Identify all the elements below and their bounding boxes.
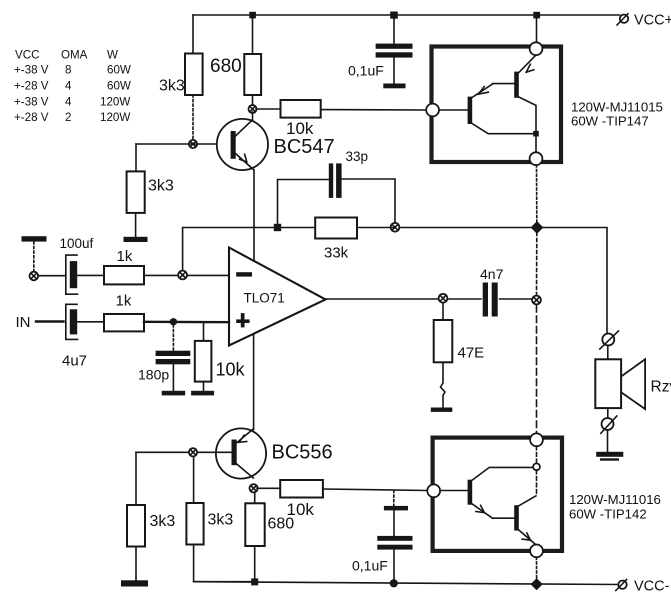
svg-text:4n7: 4n7 [480,266,504,282]
node inverting input junction [178,271,187,280]
resistor 3k3 (lower left) [127,505,145,547]
svg-text:120W-MJ11016: 120W-MJ11016 [569,492,661,507]
U2 terminal emitter (top) [530,42,543,55]
svg-text:0,1uF: 0,1uF [352,558,388,574]
ground 0,1uF top [383,84,405,89]
wire mid 3k3 top lead [193,457,195,504]
svg-text:+-28 V: +-28 V [14,80,49,93]
wire speaker feed horizontal [395,228,607,334]
wire 10k to darlington base [321,109,427,111]
wire 680 bottom lead [254,546,256,582]
op-amp U1 TL071 [229,248,326,346]
ground speaker [596,452,623,461]
node output/speaker junction [531,221,544,234]
resistor 3k3 (mid bottom) [186,503,203,545]
resistor 680 (bottom) [245,503,264,546]
svg-text:10k: 10k [216,360,246,380]
svg-text:10k: 10k [287,500,315,519]
wire output rail mid (dashed) [536,233,538,295]
svg-text:60W: 60W [107,80,131,93]
fuse/terminal speaker bottom [601,416,617,433]
svg-text:0,1uF: 0,1uF [348,63,384,79]
transistor Q1 BC547 [217,119,268,170]
U3 terminal base (left) [427,484,440,497]
svg-text:BC556: BC556 [272,442,333,464]
darlington module U2 (MJ11015/TIP147) box [432,47,562,163]
U3 transistor T2 base bar [514,505,519,530]
node 33p branch junction [274,224,281,231]
wire 3k3 divider bottom lead [135,213,137,237]
VCC+ terminal [617,14,628,25]
U3 terminal emitter (bottom) [530,545,543,558]
U3 terminal collector (top) [530,433,543,446]
U2 T1 emitter with arrow [472,84,514,98]
U2 transistor T2 base bar [514,72,519,98]
U3 collector node circle [533,463,540,470]
svg-text:3k3: 3k3 [148,178,174,195]
U3 transistor T1 base bar [468,480,473,505]
wire 3k3 top lead from rail [192,15,194,54]
table: supply voltage / current / power [14,49,131,125]
wire bottom supply rail [194,582,619,585]
wire 680 bottom lead [252,95,254,106]
capacitor 0,1uF (top) lead [393,15,395,44]
resistor 10k (non-inv to gnd) [195,341,212,382]
svg-text:33p: 33p [346,149,369,164]
wire 0,1uF bottom lead [393,550,395,583]
svg-text:1k: 1k [117,248,133,265]
resistor 3k3 (upper left) [185,54,203,96]
node output junction 47E [439,294,448,303]
capacitor 100uf (electrolytic) [66,255,78,294]
svg-text:33k: 33k [324,245,349,262]
svg-text:680: 680 [210,56,242,77]
wire 680 top lead [252,15,254,54]
fuse/terminal speaker top [600,331,619,349]
svg-text:4u7: 4u7 [62,353,87,370]
resistor 33k [315,218,357,239]
svg-text:100uf: 100uf [60,236,94,251]
capacitor 0,1uF top plates [376,44,413,58]
svg-text:120W-MJ11015: 120W-MJ11015 [571,100,663,115]
resistor 47E [434,320,453,362]
wire 0,1uF top lead (dotted) [393,491,395,506]
node 4n7 output junction [532,296,541,305]
svg-text:120W: 120W [100,111,130,124]
wire to 100uf [38,275,66,277]
svg-text:47E: 47E [458,345,485,362]
wire BC556 base [136,451,231,453]
wire 680 top lead [254,492,256,503]
svg-text:60W -TIP147: 60W -TIP147 [571,114,649,129]
svg-text:1k: 1k [116,293,132,310]
svg-text:180p: 180p [138,367,169,383]
wire 100uf to 1k [77,274,104,276]
wire 1k to non-inverting input [144,321,229,324]
svg-text:W: W [107,49,118,62]
U2 terminal collector (bottom) [530,152,543,165]
node feedback right junction [391,223,400,232]
wire 47E top lead [442,303,444,321]
ground lower left [121,580,148,586]
node 180p junction [170,318,177,325]
svg-text:4: 4 [65,96,72,109]
VCC- terminal [616,580,627,591]
U3 T2 emitter with arrow [519,530,535,544]
wire 10k bottom lead [203,382,205,391]
node BC556 base junction [189,448,197,456]
svg-text:+-38 V: +-38 V [14,96,49,109]
resistor 680 [244,54,261,95]
wire 33k right lead [357,227,395,229]
wire 47E bottom lead with kink [441,362,446,407]
svg-text:8: 8 [65,64,71,77]
wire mid 3k3 to rail [194,545,251,582]
speaker Rzv [595,359,645,409]
svg-text:BC547: BC547 [274,136,335,158]
ground 47E [431,408,453,412]
wire BC547 base [136,143,229,145]
node BC547 collector junction [249,105,257,113]
wire 0,1uF bottom lead [393,58,395,84]
U3 T2 collector [519,496,536,506]
wire fuse to speaker [607,346,609,360]
node BC556 collector junction [250,484,258,492]
U2 T1 collector [472,124,534,134]
wire speaker bottom lead [607,408,609,418]
wire 10k to darlington base [323,489,428,491]
wire 1k to inverting input [144,274,229,276]
capacitor 0,1uF (bottom) plates [377,506,412,550]
node junction 680 top [249,12,256,19]
svg-text:60W: 60W [107,64,131,77]
wire 10k top lead [203,322,205,341]
resistor 10k (lower) [280,480,323,498]
wire top supply rail [193,14,620,16]
node BC547 base junction [189,140,197,148]
transistor Q2 BC556 [216,428,266,478]
svg-text:3k3: 3k3 [208,512,234,529]
svg-text:3k3: 3k3 [159,78,185,95]
wire base divider drop [135,144,137,171]
resistor 10k (upper) [281,100,321,118]
wire 33p right lead [342,179,395,223]
U2 T2 emitter with arrow [519,56,535,73]
svg-text:4: 4 [65,80,72,93]
wire BC547 collector lead [252,112,254,120]
U2 internal base wire [439,109,468,111]
node input ground terminal [30,272,39,281]
wire ground to input node (dotted) [33,242,35,272]
darlington module U3 (MJ11016/TIP142) box [433,438,562,551]
wire output rail lower (dash-dot) [536,306,538,434]
svg-text:3k3: 3k3 [150,513,176,530]
svg-text:+-38 V: +-38 V [14,64,49,77]
node junction 0,1uF top [390,12,398,19]
wire feedback horizontal [183,228,316,275]
wire op-amp V- to BC556 emitter [253,334,255,430]
wire 3k3 bottom lead (dotted) [192,95,194,140]
svg-text:Rzv: Rzv [651,379,671,396]
wire BC556 collector to 10k [257,487,280,489]
U3 internal base wire [440,490,468,492]
U3 T1 emitter with arrow [472,504,514,518]
svg-text:120W: 120W [100,96,130,109]
capacitor 180p plates [156,351,191,365]
svg-text:VCC+: VCC+ [634,13,671,29]
svg-text:VCC-: VCC- [634,579,670,595]
resistor 1k (feedback leg) [104,266,144,284]
node junction darlington top [533,12,540,19]
wire to speaker ground [607,430,609,452]
wire darlington top terminal lead [536,15,538,43]
svg-text:60W -TIP142: 60W -TIP142 [569,507,647,522]
node darlington rail junction [531,578,543,590]
wire 180p bottom lead [172,364,174,391]
node 0,1uF rail junction [390,579,398,587]
ground input reference [22,236,47,241]
U2 terminal base (left) [426,104,439,117]
wire U3 emitter to rail (dotted) [536,557,538,580]
ground 10k [191,391,214,396]
svg-text:TLO71: TLO71 [244,291,285,306]
svg-text:VCC: VCC [15,49,39,62]
svg-text:2: 2 [65,111,71,124]
wire op-amp output [326,298,533,300]
capacitor 4u7 (electrolytic) [66,304,78,339]
U2 transistor T1 base bar [468,97,473,124]
wire collector to 10k [256,108,281,110]
ground (base divider) [124,237,148,242]
wire base divider drop left [135,452,137,505]
U2 collector junction dot [533,131,539,137]
ground 180p [162,391,186,396]
capacitor 4n7 plates [482,282,499,318]
wire 3k3 bottom lead [135,547,137,581]
svg-text:IN: IN [16,314,31,331]
U2 T2 collector [519,97,536,152]
wire 4u7 to 1k [77,321,104,323]
svg-text:+-28 V: +-28 V [14,111,49,124]
U3 T1 collector [472,467,533,480]
wire 33p left branch [278,180,329,225]
resistor 3k3 (base divider) [127,171,145,213]
wire 180p top lead (dotted) [172,325,174,351]
svg-text:OMA: OMA [61,49,88,62]
wire BC547 emitter down to op-amp V+ [253,170,255,262]
wire IN lead [36,320,64,322]
wire U3 collector rail (dashed) [536,446,538,496]
resistor 1k (input) [104,314,144,331]
node 680 rail junction [251,578,258,585]
capacitor 33p plates [329,163,342,198]
wire output rail upper (dotted) [536,165,538,222]
